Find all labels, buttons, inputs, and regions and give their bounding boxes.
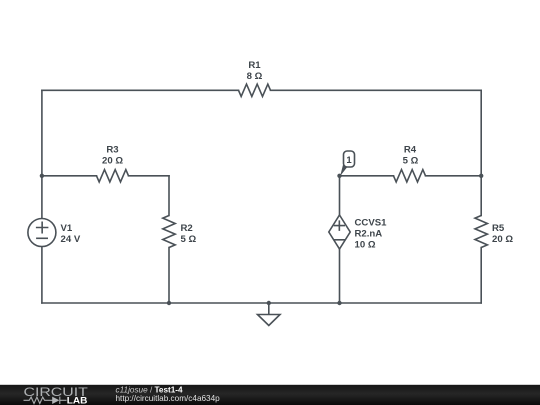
svg-text:http://circuitlab.com/c4a634p: http://circuitlab.com/c4a634p xyxy=(116,394,221,403)
svg-text:R2.nA: R2.nA xyxy=(355,228,383,239)
svg-text:5 Ω: 5 Ω xyxy=(181,234,197,245)
svg-text:V1: V1 xyxy=(61,223,73,234)
svg-text:R5: R5 xyxy=(492,223,505,234)
svg-text:8 Ω: 8 Ω xyxy=(247,71,263,82)
svg-text:CCVS1: CCVS1 xyxy=(355,217,388,228)
svg-text:R4: R4 xyxy=(404,144,417,155)
svg-text:20 Ω: 20 Ω xyxy=(102,155,123,166)
svg-text:24 V: 24 V xyxy=(61,234,81,245)
svg-text:1: 1 xyxy=(346,155,352,166)
svg-text:R1: R1 xyxy=(248,60,261,71)
svg-text:5 Ω: 5 Ω xyxy=(403,155,419,166)
svg-text:20 Ω: 20 Ω xyxy=(492,234,513,245)
svg-text:LAB: LAB xyxy=(67,396,88,405)
svg-text:R3: R3 xyxy=(106,144,118,155)
svg-text:10 Ω: 10 Ω xyxy=(355,239,376,250)
svg-text:R2: R2 xyxy=(181,223,193,234)
